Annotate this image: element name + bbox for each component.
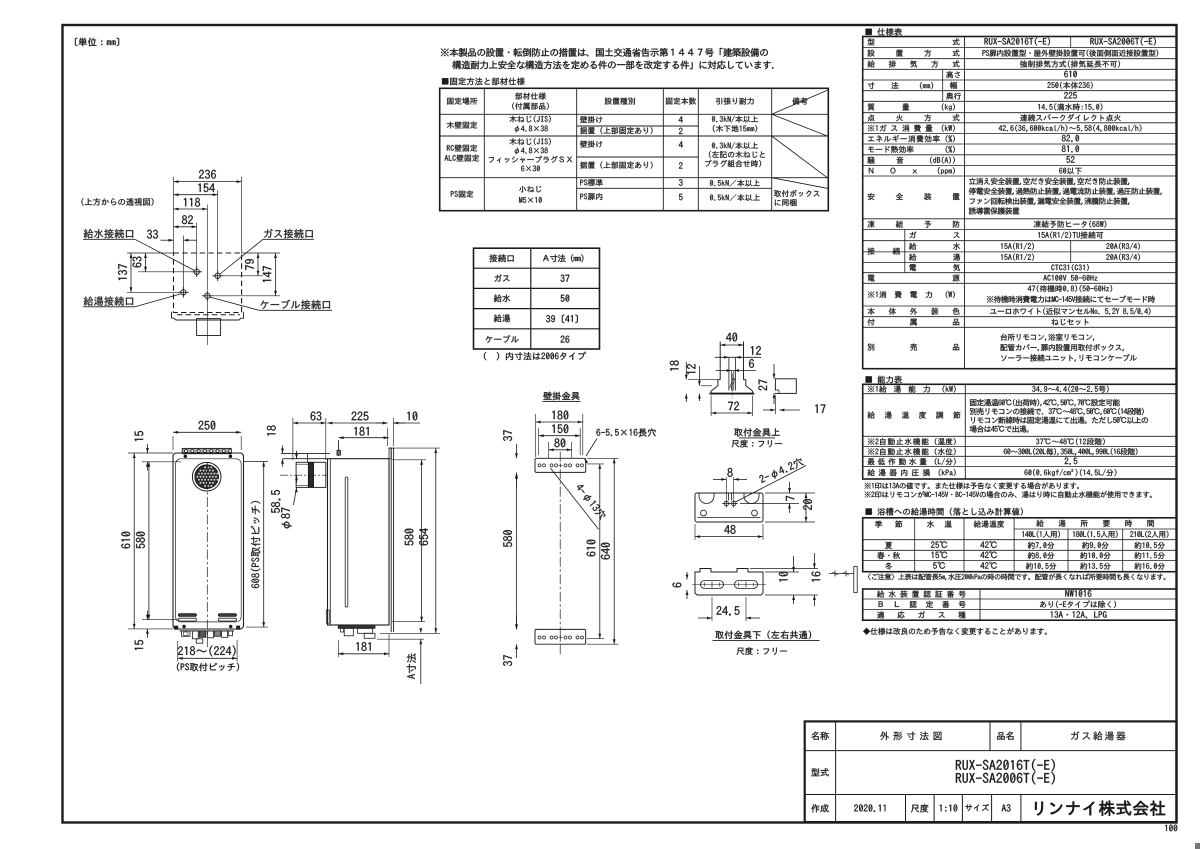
side view: wall mounting plate <box>390 448 392 632</box>
front view: bottom vent slots <box>178 614 196 617</box>
front view: body outline <box>173 453 244 629</box>
top view: mounting flange bottom strip <box>171 312 173 318</box>
lower fitting: extension lines right <box>765 492 815 494</box>
front view: dim 608 PS pitch <box>263 462 265 628</box>
spec row 電気 <box>910 264 961 271</box>
top view: dim 236 <box>174 181 242 183</box>
A-dim row hot water <box>494 314 510 322</box>
fixing table headers <box>447 98 477 105</box>
side view: dim 58.5 <box>296 451 298 459</box>
title cell 外形寸法図 <box>880 732 941 741</box>
side view: dim 225 <box>327 422 387 424</box>
title cell サイズ <box>965 804 989 811</box>
wall bracket: dim 610 <box>587 463 604 465</box>
bath row winter <box>885 563 892 570</box>
lower fitting: dim 8 <box>725 477 727 499</box>
fixing table row RC/ALC wall <box>447 145 477 152</box>
top view: centre line below + hot water ext (33) <box>206 299 208 345</box>
spec row エネルギー消費効率 <box>868 135 955 142</box>
capacity row 自動止水水位 <box>868 448 956 455</box>
capacity footnote 1 <box>865 482 1079 489</box>
cert row 給水装置認証番号 <box>877 591 966 598</box>
top view: extension/centre line cable (118) <box>206 205 208 291</box>
lower fitting: dim 6 <box>686 575 688 580</box>
side view: body outline <box>328 459 390 625</box>
side view: exhaust pipe phi87 <box>296 462 326 487</box>
wall bracket: dim 37 top <box>516 444 518 458</box>
bath row spring-autumn <box>877 552 900 559</box>
spec row NOx <box>869 167 955 174</box>
top fitting side view piece <box>775 379 796 394</box>
front view: exhaust louver circle <box>192 462 221 491</box>
side view: dim 181 bottom <box>337 640 339 657</box>
wall bracket: dim 80 <box>549 449 572 451</box>
top view: dim 82 <box>174 226 197 228</box>
cert table grid <box>863 598 1177 600</box>
fixing table remark diagonals <box>772 90 828 114</box>
top fitting: extension lines <box>688 379 718 381</box>
lower fitting: dim 16 <box>813 553 815 569</box>
wall bracket: slot note 6-5.5x16 <box>596 429 655 437</box>
fixing table outer border <box>440 88 829 210</box>
top fitting: dim 6 <box>716 370 757 372</box>
cert row BL認定番号 <box>879 601 966 608</box>
lower fitting: dim 20 <box>805 493 807 522</box>
A-dim table grid <box>530 248 532 349</box>
spec row 給水 <box>909 243 960 250</box>
side view: exhaust pipe centre line <box>280 474 328 476</box>
front view: bottom screws and tabs <box>183 625 186 628</box>
lower fitting: dim 10 <box>793 556 795 572</box>
spec row 寸法 高さ <box>868 82 933 89</box>
units note (unit: mm) <box>75 38 119 47</box>
bath table title <box>866 508 1023 516</box>
bath table note <box>868 573 1166 580</box>
capacity row 圧損 <box>868 469 956 476</box>
front view: front panel inner line <box>176 459 242 622</box>
wall bracket: centre line <box>559 452 561 656</box>
spec row 本体外装色 <box>868 308 960 315</box>
spec table outer border <box>863 37 1177 369</box>
spec row 騒音 <box>867 157 954 164</box>
top view: cable hole <box>205 293 210 298</box>
top view: dim 118 <box>174 208 208 210</box>
side view: top extension lines <box>292 418 294 460</box>
spec row 型式 <box>868 38 960 45</box>
lower fitting: dim 7 <box>789 482 791 493</box>
front view: dim 15 bottom <box>146 611 148 620</box>
top view: extension line right edge (236) <box>241 177 243 253</box>
label gas connection ガス接続口 <box>264 229 313 238</box>
wall bracket: dim 150 <box>539 435 581 437</box>
wall bracket: dim 37 bottom <box>516 615 518 629</box>
top view: dim 147 <box>275 253 277 296</box>
capacity footnote 2 <box>865 491 1152 498</box>
wall bracket: dim 640 <box>587 457 619 459</box>
spec row 点火方式 <box>868 114 960 121</box>
spec row 付属品 <box>868 319 960 326</box>
spec row ガス消費量 <box>868 125 955 132</box>
sheet number 100 <box>1165 825 1177 832</box>
top view: hot water hole <box>181 290 186 295</box>
capacity table title 能力表 <box>866 376 902 384</box>
top fitting: dim 12 <box>715 356 761 358</box>
top view: exhaust duct rectangle <box>197 319 221 336</box>
label hot water connection 給湯接続口 <box>84 296 133 305</box>
title cell 1:10 <box>940 804 958 811</box>
top view: extension line gas (154) <box>217 190 219 272</box>
front view: left extension lines <box>128 452 173 454</box>
top fitting: dim 40 <box>720 344 743 346</box>
fixing table grid <box>483 88 485 210</box>
side view: bottom pipe connections <box>333 625 385 628</box>
top fitting: flange body <box>718 379 720 381</box>
A-dim row gas <box>494 274 509 281</box>
spec row 凍結予防 <box>868 221 960 228</box>
title cell A3 <box>1002 804 1011 811</box>
title block outer border <box>805 721 1177 822</box>
bath table grid <box>1014 528 1176 530</box>
A-dim footnote <box>484 352 586 360</box>
front view: right extension lines <box>244 461 269 463</box>
front view: dim 580 <box>148 462 150 620</box>
side view: dim 63 <box>293 422 326 424</box>
top fitting: dim 27 <box>773 364 775 379</box>
spec row 設置方式 <box>868 50 960 57</box>
top view: dim 154 <box>174 194 218 196</box>
wall bracket: top plate with slots <box>535 458 586 472</box>
capacity table border <box>863 384 1177 479</box>
top view: water supply hole <box>194 269 199 274</box>
spec row 電源 <box>868 275 960 282</box>
title cell 作成 <box>811 804 828 812</box>
spec row モード熱効率 <box>868 146 913 153</box>
side view: right extension lines <box>396 447 440 449</box>
fixing table title <box>442 78 525 86</box>
side view: door seam slot <box>345 477 348 607</box>
top view: dim 79 <box>257 253 259 276</box>
cert table border <box>863 589 1177 620</box>
title cell date 2020.11 <box>854 804 885 811</box>
title cell 名称 <box>811 732 828 740</box>
wall bracket title 壁掛金具 <box>543 392 579 400</box>
fixing table row PS <box>451 191 473 198</box>
side view: phi87 leader <box>295 487 298 492</box>
front view: top screws <box>184 455 187 458</box>
title cell 尺度 <box>911 804 928 812</box>
top view: extension line water (82) <box>196 223 198 269</box>
front view: bottom vent slots <box>218 614 236 617</box>
capacity row 最低作動水量 <box>868 458 956 465</box>
lower fitting top view body <box>695 493 763 522</box>
spec row 給排気方式 <box>868 60 960 67</box>
A-dim row cable <box>486 335 519 343</box>
spec row 給湯 <box>909 254 960 261</box>
top view: extension line left edge <box>173 177 175 253</box>
top view title (perspective from above) <box>81 198 153 206</box>
front view: bottom pipe connections cluster <box>180 630 235 632</box>
top view: unit outline dashed box <box>174 253 242 313</box>
top fitting: stem sides <box>719 342 721 380</box>
spec row 別売品 <box>868 344 960 351</box>
top fitting: dim 12 left <box>698 366 700 386</box>
wall bracket: bottom plate with slots <box>535 629 586 644</box>
front view: dim 610 <box>133 453 135 629</box>
lower fitting: dim 24.5 <box>711 597 713 621</box>
bath table header row2 <box>1022 531 1060 538</box>
side view: dim 580 <box>421 460 423 622</box>
title model numbers <box>956 759 1055 771</box>
wall bracket: top extension lines <box>535 414 537 457</box>
final footnote <box>863 628 1047 635</box>
lower fitting edge view at right <box>829 573 854 575</box>
spec row 奥行 <box>946 92 961 99</box>
company name リンナイ株式会社 <box>1035 801 1165 816</box>
spec table title 仕様表 <box>866 28 902 36</box>
top view: dim 33 <box>161 239 174 241</box>
top fitting: dim 72 <box>710 396 712 417</box>
spec table grid <box>863 47 1177 49</box>
top view: dim 63 <box>145 253 147 272</box>
A-dim table border <box>474 248 600 349</box>
front view: dim 15 top <box>146 444 148 453</box>
top view: dim 137 <box>130 253 132 292</box>
lower fitting front: extension lines <box>750 568 818 570</box>
spec row 幅 <box>950 82 957 89</box>
side view: dim A <box>420 639 422 684</box>
bath row summer <box>885 542 892 549</box>
installation regulation note <box>441 48 768 57</box>
top view: extension lines right dims <box>242 252 280 254</box>
capacity row 給湯能力 <box>868 386 956 393</box>
title cell 型式 <box>811 768 828 776</box>
top fitting: dim 18 <box>685 362 687 380</box>
wall bracket: 4-phi13 holes note <box>551 468 599 529</box>
front view: vertical centre line <box>206 462 208 648</box>
spec row 接続 ガス <box>868 248 900 255</box>
side view: dim 18 <box>282 445 284 453</box>
side view: dim 10 <box>376 422 388 424</box>
top fitting: dim 17 <box>774 395 776 414</box>
top view: gas hole <box>215 273 220 278</box>
side view: dim 181 top <box>339 437 389 439</box>
side view: dim 654 <box>435 448 437 633</box>
title block grid <box>805 750 1177 752</box>
bath table header row1 <box>875 521 902 528</box>
capacity row 自動止水温度 <box>868 438 956 445</box>
spec row 質量 <box>868 103 955 110</box>
spec row 消費電力 <box>868 291 955 298</box>
capacity row 給湯温度調節 <box>868 412 961 419</box>
lower fitting: 2-phi4.2 note <box>736 466 807 503</box>
A-dim row water <box>494 294 510 302</box>
front view: top mounting bracket strip <box>182 448 231 453</box>
label water supply connection 給水接続口 <box>84 229 133 238</box>
capacity table grid <box>863 393 1177 395</box>
label cable connection ケーブル接続口 <box>260 300 329 310</box>
top fitting: stem slots <box>728 357 730 390</box>
spec row 安全装置 <box>868 193 960 200</box>
lower fitting front view body with slots <box>695 569 763 596</box>
lower fitting: dim 48 <box>694 524 696 540</box>
A-dim header <box>489 254 513 262</box>
title cell ガス給湯器 <box>1071 731 1125 740</box>
fixing table row wood wall <box>447 122 477 129</box>
scan mark bottom right <box>1195 843 1200 849</box>
front view: PS pitch note <box>177 663 239 671</box>
lower fitting label 取付金具下 <box>715 631 811 639</box>
wall bracket: dim 580 <box>516 474 518 630</box>
bath table border <box>863 518 1177 572</box>
top view: extension lines left dims <box>127 252 174 254</box>
front view: dim 218-(224) <box>177 641 179 662</box>
top fitting label 取付金具上 <box>734 428 779 436</box>
front view: dim 250 <box>173 431 241 433</box>
side view: top flange lines <box>281 452 330 454</box>
wall bracket: dim 180 <box>536 421 583 423</box>
cert row 適応ガス種 <box>877 611 965 618</box>
title cell 品名 <box>997 732 1013 740</box>
